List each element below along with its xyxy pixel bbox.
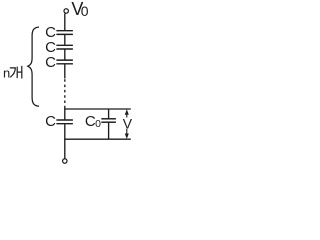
svg-text:C: C (45, 54, 56, 71)
svg-text:0: 0 (81, 3, 89, 19)
svg-text:0: 0 (95, 118, 101, 130)
svg-text:n: n (3, 65, 10, 80)
svg-text:C: C (45, 113, 56, 130)
svg-text:V: V (123, 115, 133, 131)
